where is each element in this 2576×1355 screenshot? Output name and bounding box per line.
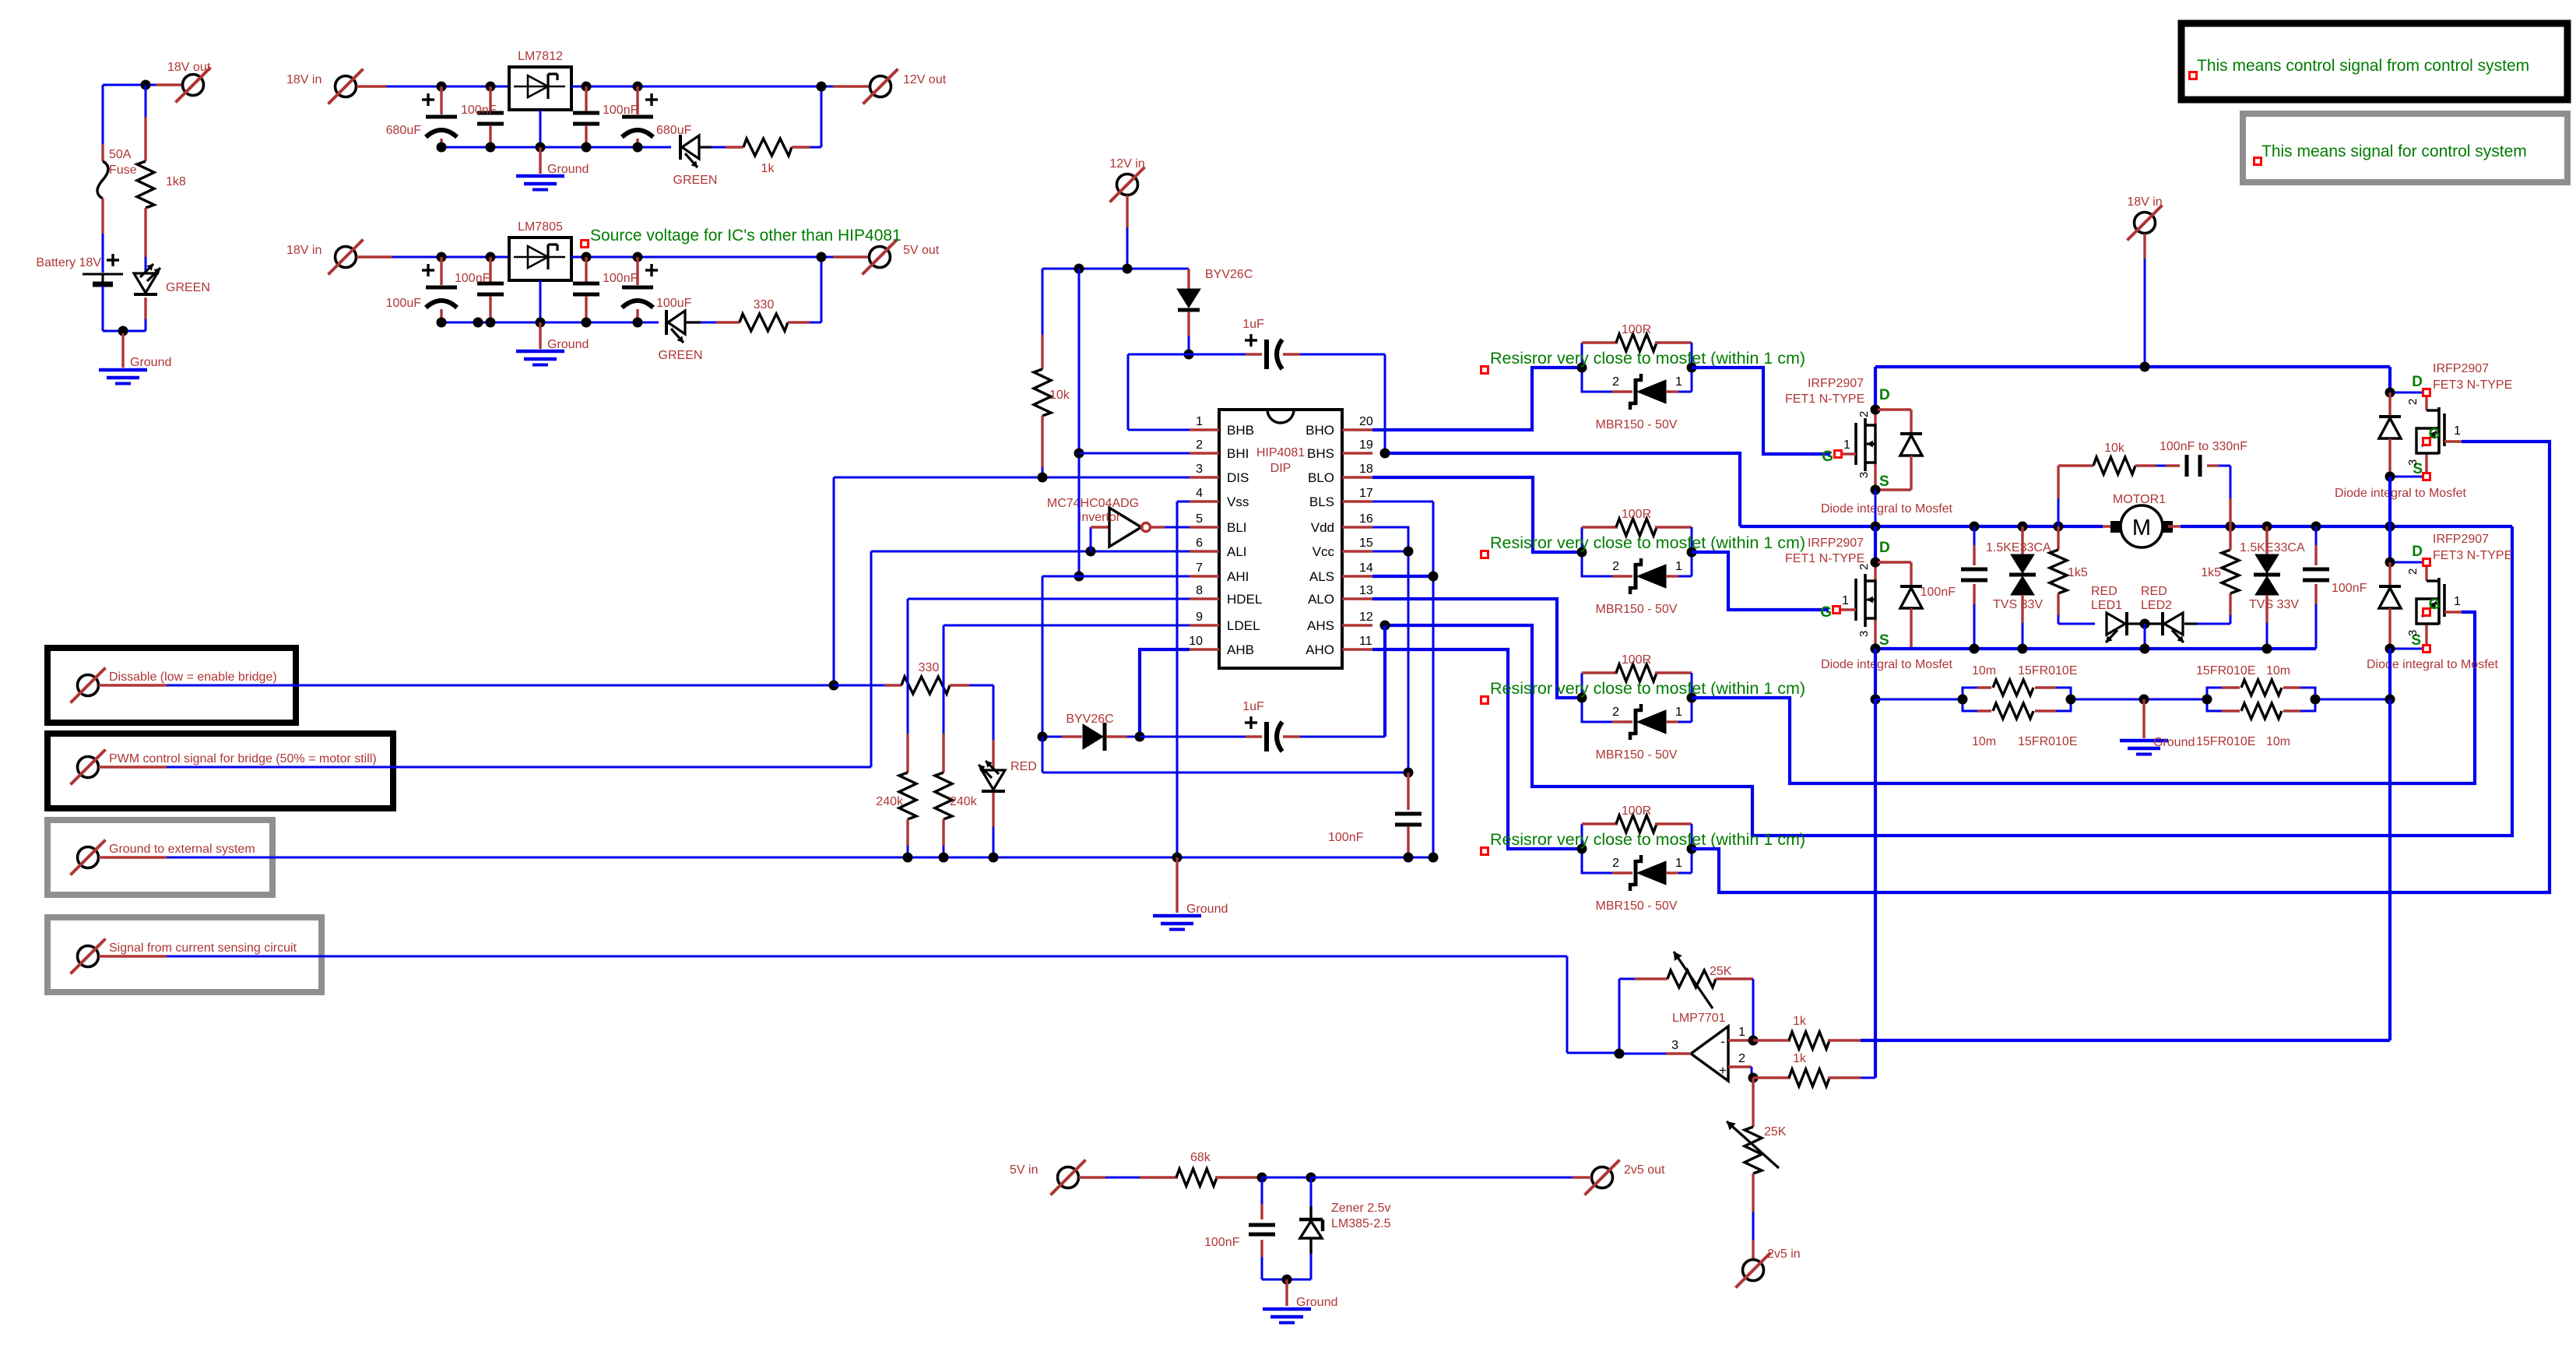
connector Signal [71, 939, 297, 974]
connector Dissable [71, 668, 277, 703]
wire motor rail A [1740, 525, 2512, 528]
node railA fet3 [2385, 522, 2395, 532]
svg-text:Diode integral to Mosfet: Diode integral to Mosfet [1821, 658, 1953, 671]
node 7805 out-cap3 [582, 252, 592, 262]
ground main [1153, 857, 1228, 930]
node gnd5 [633, 143, 643, 153]
op-amp U LMP7701 [1672, 1012, 1728, 1081]
pin 15 Vcc [1313, 537, 1373, 559]
node railA 1k5a [2054, 522, 2064, 532]
pin 4 Vss [1190, 487, 1249, 509]
connector 18V in (7812) [286, 69, 364, 104]
capacitor C 680uF out [622, 86, 692, 147]
node pin2 [1748, 1073, 1759, 1083]
svg-text:1k5: 1k5 [2201, 566, 2221, 579]
resistor R 1k5 left [2050, 526, 2095, 624]
node Vcc [1404, 547, 1414, 557]
transistor Q FET1 [1785, 377, 1890, 490]
diode body FET3l [2379, 562, 2401, 649]
pin 7 AHI [1190, 561, 1249, 584]
pin 11 AHO [1306, 635, 1372, 657]
node 100nF gnd [1404, 853, 1414, 863]
svg-text:1uF: 1uF [1242, 700, 1264, 713]
wire 12V bus [1042, 268, 1189, 270]
svg-text:IRFP2907: IRFP2907 [2433, 533, 2489, 546]
node AHS pin [1380, 621, 1390, 631]
node railA tvs1 [2018, 522, 2028, 532]
svg-text:8: 8 [1196, 584, 1203, 597]
wire battery bottom [103, 286, 146, 331]
pin 6 ALI [1190, 537, 1247, 559]
capacitor C 100nF hip [1328, 773, 1422, 857]
wire 7812 output [571, 86, 870, 88]
svg-text:3: 3 [2406, 459, 2420, 466]
wire boost to BHS [1384, 354, 1386, 453]
resistor R 330 (7805) [740, 298, 821, 331]
svg-text:4: 4 [1196, 487, 1203, 500]
node brail tvs2 [2262, 644, 2272, 654]
node brail fet2 [1871, 644, 1881, 654]
node 12v b [1123, 264, 1133, 274]
wire BLS net [1372, 502, 1433, 857]
svg-text:14: 14 [1359, 561, 1373, 575]
inverter U MC74HC04ADG [1047, 497, 1190, 551]
wire PWM up [870, 551, 873, 767]
svg-text:FET3 N-TYPE: FET3 N-TYPE [2433, 378, 2512, 392]
node brail tvs1 [2018, 644, 2028, 654]
diode TVS1 1.5KE33CA [1986, 526, 2051, 649]
node cluster3 right [1687, 693, 1697, 703]
svg-text:1: 1 [1738, 1026, 1745, 1039]
svg-text:BHB: BHB [1227, 423, 1254, 438]
svg-text:HIP4081: HIP4081 [1256, 446, 1305, 459]
node gnd2 [486, 143, 496, 153]
pin 2 BHI [1190, 438, 1249, 461]
wire 7805 input [357, 255, 509, 258]
ground 7812 [516, 147, 589, 190]
IC U HIP4081 [1219, 410, 1342, 668]
svg-text:G: G [1822, 449, 1833, 465]
wire 2v5 node [1262, 1177, 1311, 1179]
svg-text:MC74HC04ADG: MC74HC04ADG [1047, 497, 1139, 510]
svg-text:This means control signal from: This means control signal from control s… [2197, 57, 2529, 75]
node FET2 S [1871, 644, 1881, 654]
resistor R 1k inv [1753, 1015, 2390, 1049]
node railA cap [1970, 522, 1980, 532]
wire 7812 input [357, 85, 509, 87]
wire LDEL row [944, 625, 1190, 627]
wire BHI drop [1078, 269, 1081, 576]
transistor Q FET2 [1785, 537, 1890, 649]
svg-text:ALS: ALS [1309, 569, 1334, 584]
node BHS pin [1380, 449, 1390, 459]
wire led red drop [993, 685, 995, 770]
legend box signal for [2243, 114, 2567, 182]
label diode integral 3 [2335, 487, 2467, 500]
svg-text:2: 2 [1612, 706, 1619, 719]
svg-text:BHS: BHS [1307, 446, 1334, 461]
svg-text:AHB: AHB [1227, 642, 1254, 657]
node FET3l S [2385, 644, 2395, 654]
svg-text:3: 3 [1857, 631, 1871, 637]
node AHI [1074, 572, 1084, 582]
node ALI tap [1086, 547, 1096, 557]
wire ground rail long [99, 856, 1433, 858]
svg-text:GREEN: GREEN [166, 281, 210, 294]
wire 1k up [821, 86, 823, 147]
node 7812 in-cap2 [486, 82, 496, 92]
svg-text:9: 9 [1196, 611, 1203, 624]
svg-text:15FR010E: 15FR010E [2018, 735, 2078, 748]
regulator U LM7805 [509, 220, 571, 322]
svg-text:2: 2 [1857, 411, 1871, 417]
svg-text:330: 330 [919, 661, 940, 674]
pin 18 BLO [1308, 463, 1373, 485]
svg-text:16: 16 [1359, 512, 1373, 526]
node cluster4 left [1577, 844, 1587, 854]
node byv left [1038, 732, 1048, 742]
svg-text:10m: 10m [1972, 664, 1996, 677]
capacitor C 100uF out [622, 257, 692, 322]
wire 12V drop [1126, 195, 1128, 269]
svg-text:20: 20 [1359, 415, 1373, 428]
svg-text:3: 3 [1196, 463, 1203, 476]
connector 5V in [1010, 1160, 1086, 1195]
pin 10 AHB [1189, 635, 1254, 657]
svg-text:LM7805: LM7805 [518, 220, 563, 234]
svg-text:100R: 100R [1622, 508, 1651, 521]
svg-text:240k: 240k [950, 795, 978, 808]
wire AHI left drop [1042, 576, 1044, 737]
svg-text:Ground: Ground [1186, 903, 1228, 916]
svg-text:15: 15 [1359, 537, 1373, 550]
node g6 [633, 318, 643, 328]
node 7812 in-cap1 [437, 82, 447, 92]
svg-text:MBR150 - 50V: MBR150 - 50V [1596, 899, 1678, 913]
resistor R 1k [743, 139, 821, 175]
pin 3 DIS [1190, 463, 1249, 485]
svg-text:1: 1 [1842, 594, 1849, 607]
svg-text:330: 330 [754, 298, 775, 311]
svg-text:RED: RED [1010, 760, 1037, 773]
node gnd1 [437, 143, 447, 153]
diode D MBR150 cluster3 [1582, 698, 1692, 762]
wire BHB loop [1128, 354, 1190, 430]
svg-text:DIP: DIP [1270, 462, 1292, 475]
node 7805 in-cap2 [486, 252, 496, 262]
resistor R 10k [1034, 269, 1070, 477]
node FET2 D [1871, 558, 1881, 568]
capacitor C 100nF ref [1204, 1177, 1275, 1279]
connector 2v5 in [1736, 1248, 1801, 1288]
wire FET3S to sense [2388, 649, 2391, 699]
svg-text:BLO: BLO [1308, 470, 1334, 485]
svg-text:1: 1 [1675, 560, 1682, 573]
svg-text:100nF to 330nF: 100nF to 330nF [2160, 440, 2247, 453]
node sense l1 [1958, 695, 1968, 705]
wire AHI row [1042, 575, 1190, 578]
pin 1 BHB [1190, 415, 1254, 438]
node Vcc bus cap [1404, 768, 1414, 778]
svg-text:IRFP2907: IRFP2907 [2433, 362, 2489, 375]
wire DIS row [834, 477, 1190, 479]
wire 18V top rail [1875, 367, 2390, 410]
svg-text:BHO: BHO [1306, 423, 1334, 438]
wire 18V drop [2143, 234, 2145, 367]
node 12v a [1074, 264, 1084, 274]
svg-text:FET1 N-TYPE: FET1 N-TYPE [1785, 552, 1864, 565]
svg-text:100nF: 100nF [455, 272, 490, 285]
svg-text:1k5: 1k5 [2068, 566, 2088, 579]
node BHI [1074, 449, 1084, 459]
svg-text:1k8: 1k8 [166, 175, 186, 188]
svg-text:10k: 10k [1049, 389, 1070, 402]
wire 2v5 long [1311, 1177, 1573, 1179]
svg-text:3: 3 [1671, 1039, 1678, 1052]
svg-text:Diode integral to Mosfet: Diode integral to Mosfet [2335, 487, 2467, 500]
diode D BYV26C top [1177, 268, 1253, 354]
pin 16 Vdd [1311, 512, 1373, 535]
diode TVS2 1.5KE33CA [2240, 526, 2305, 649]
potentiometer R 25K offset [1727, 1078, 1787, 1259]
regulator U LM7812 [509, 50, 571, 147]
svg-text:1: 1 [2454, 595, 2461, 608]
svg-text:3: 3 [1857, 472, 1871, 478]
resistor R 100R cluster4 [1582, 804, 1692, 849]
svg-text:GREEN: GREEN [659, 349, 703, 362]
svg-text:IRFP2907: IRFP2907 [1808, 377, 1864, 390]
svg-text:LMP7701: LMP7701 [1672, 1012, 1726, 1025]
svg-text:2: 2 [2406, 399, 2420, 405]
wire opamp pin2 [1728, 1052, 1752, 1078]
svg-text:Zener 2.5v: Zener 2.5v [1331, 1202, 1390, 1215]
svg-text:1k: 1k [761, 162, 775, 175]
svg-text:Battery 18V: Battery 18V [36, 256, 101, 269]
svg-text:Dissable (low = enable bridge): Dissable (low = enable bridge) [109, 670, 277, 684]
ground ref [1263, 1279, 1337, 1323]
wire gate FET3 (A-high) [1692, 442, 2550, 892]
LED RED LED2 [2138, 585, 2230, 642]
svg-text:1k: 1k [1793, 1052, 1807, 1065]
svg-text:LM7812: LM7812 [518, 50, 563, 63]
node ref gnd [1282, 1275, 1292, 1285]
connector 12V out [863, 69, 947, 104]
svg-text:1: 1 [1843, 438, 1850, 452]
svg-text:Diode integral to Mosfet: Diode integral to Mosfet [2367, 658, 2499, 671]
svg-text:18V in: 18V in [286, 244, 322, 257]
wire led mid drop [2144, 624, 2146, 649]
node cluster4 right [1687, 844, 1697, 854]
node railA motorR [2226, 522, 2236, 532]
svg-text:Resisror very close to mosfet: Resisror very close to mosfet (within 1 … [1490, 533, 1805, 552]
svg-text:10m: 10m [2266, 735, 2290, 748]
capacitor C 100uF in [386, 257, 457, 322]
battery B1 18V [36, 254, 123, 284]
svg-text:ALI: ALI [1227, 544, 1247, 559]
svg-text:1: 1 [1675, 857, 1682, 870]
svg-text:1: 1 [1675, 375, 1682, 389]
resistor R 10m left top [1963, 664, 2078, 699]
wire gate FET1 [1692, 368, 1830, 454]
svg-text:50A: 50A [109, 148, 132, 161]
node 12V out [817, 82, 827, 92]
diode body FET1 [1878, 410, 1922, 490]
node 7812 out-cap3 [582, 82, 592, 92]
node opamp out [1615, 1049, 1625, 1059]
wire BHI row [1079, 452, 1190, 455]
wire AHO net [1372, 649, 1582, 849]
wire FET3h S drop [2388, 477, 2391, 526]
box Ground external [47, 820, 272, 895]
svg-text:3: 3 [2406, 630, 2420, 636]
svg-text:Signal from current sensing ci: Signal from current sensing circuit [109, 941, 297, 955]
resistor R 100R cluster3 [1582, 653, 1692, 698]
wire BLO net [1372, 477, 1582, 552]
transistor Q FET3 low [2390, 533, 2512, 653]
svg-text:100nF: 100nF [2332, 582, 2367, 595]
svg-text:1: 1 [2454, 424, 2461, 438]
svg-text:100nF: 100nF [1328, 831, 1364, 844]
connector PWM [71, 750, 377, 785]
node cluster2 left [1577, 547, 1587, 558]
resistor R 1k8 [137, 85, 186, 273]
svg-text:2: 2 [1738, 1052, 1745, 1065]
svg-text:680uF: 680uF [386, 124, 422, 137]
diode D MBR150 cluster1 [1582, 368, 1692, 431]
wire Vcc bus [1042, 737, 1408, 773]
wire FET2S to sense [1874, 649, 1877, 699]
svg-text:15FR010E: 15FR010E [2196, 735, 2256, 748]
node Vss gnd [1172, 853, 1183, 863]
svg-text:1.5KE33CA: 1.5KE33CA [2240, 541, 2305, 554]
svg-text:BHI: BHI [1227, 446, 1249, 461]
LED GREEN 7805 [659, 310, 740, 362]
wire ALS net [1372, 575, 1433, 578]
svg-text:Fuse: Fuse [109, 164, 137, 177]
resistor R 10m right top [2196, 664, 2315, 699]
svg-text:FET1 N-TYPE: FET1 N-TYPE [1785, 392, 1864, 406]
svg-text:100nF: 100nF [603, 104, 638, 117]
pin 8 HDEL [1190, 584, 1262, 607]
node 7805 in-cap1 [437, 252, 447, 262]
svg-text:Resisror very close to mosfet: Resisror very close to mosfet (within 1 … [1490, 679, 1805, 698]
wire ALO net [1372, 599, 1582, 698]
svg-text:DIS: DIS [1227, 470, 1249, 485]
svg-text:D: D [1879, 540, 1890, 556]
wire 330 up [821, 257, 823, 322]
svg-text:13: 13 [1359, 584, 1373, 597]
wire gate FET4 (A-low) [1692, 612, 2475, 783]
resistor R 1k noninv [1753, 1052, 1875, 1086]
annotation resistor close 4 [1481, 830, 1806, 855]
box Signal sensing [47, 917, 322, 992]
ground 7805 [516, 322, 589, 365]
node boost b [1184, 350, 1194, 360]
svg-text:100nF: 100nF [1921, 586, 1956, 599]
node brail mid [2140, 644, 2150, 654]
pin 17 BLS [1309, 487, 1373, 509]
node FET1 D [1871, 405, 1881, 415]
svg-text:240k: 240k [876, 795, 904, 808]
svg-text:G: G [1820, 604, 1832, 621]
wire sense row [1875, 699, 2390, 701]
node FET1 S [1871, 485, 1881, 495]
svg-text:7: 7 [1196, 561, 1203, 575]
svg-text:19: 19 [1359, 438, 1373, 452]
svg-text:Vss: Vss [1227, 494, 1249, 509]
svg-text:S: S [1879, 632, 1889, 649]
wire battery left drop [102, 85, 104, 144]
svg-text:G: G [2429, 426, 2441, 442]
node g1 [437, 318, 447, 328]
wire BHO net [1372, 368, 1582, 430]
diode D MBR150 cluster4 [1582, 849, 1692, 913]
pin 5 BLI [1190, 512, 1247, 535]
svg-text:68k: 68k [1190, 1151, 1211, 1164]
svg-text:D: D [2412, 544, 2423, 560]
svg-text:MBR150 - 50V: MBR150 - 50V [1596, 603, 1678, 616]
node 10k-DIS [1038, 473, 1048, 483]
wire FET2 D [1874, 526, 1877, 562]
svg-text:IRFP2907: IRFP2907 [1808, 537, 1864, 550]
svg-text:15FR010E: 15FR010E [2018, 664, 2078, 677]
svg-text:100uF: 100uF [656, 297, 692, 310]
svg-text:25K: 25K [1764, 1125, 1787, 1139]
node 18V rail [2140, 362, 2150, 372]
wire senseB down [2388, 699, 2391, 1040]
svg-text:LED1: LED1 [2091, 599, 2122, 612]
svg-text:6: 6 [1196, 537, 1203, 550]
svg-text:1k: 1k [1793, 1015, 1807, 1028]
svg-text:2: 2 [1196, 438, 1203, 452]
capacitor C 680uF in [386, 86, 457, 147]
diode D Zener LM385-2.5 [1299, 1177, 1391, 1279]
resistor R 1k5 right [2201, 526, 2239, 624]
capacitor C 100nF out2 [573, 257, 638, 322]
node FET3h D [2385, 388, 2395, 398]
wire bottom rail [1875, 647, 2316, 650]
wire sense to 1k [1874, 699, 1877, 1078]
svg-text:LDEL: LDEL [1227, 618, 1260, 633]
svg-text:2: 2 [1612, 857, 1619, 870]
LED GREEN battery [134, 264, 210, 331]
node rail end [1429, 853, 1439, 863]
svg-text:BYV26C: BYV26C [1205, 268, 1253, 281]
svg-text:18: 18 [1359, 463, 1373, 476]
svg-text:5V out: 5V out [903, 244, 940, 257]
capacitor C 100nF-330nF [2160, 440, 2247, 526]
svg-text:M: M [2132, 516, 2151, 540]
capacitor C 1uF top [1189, 318, 1385, 369]
svg-text:MBR150 - 50V: MBR150 - 50V [1596, 418, 1678, 431]
wire Vcc jog [1372, 551, 1408, 773]
svg-text:MBR150 - 50V: MBR150 - 50V [1596, 748, 1678, 762]
connector 18V in right [2127, 195, 2162, 241]
annotation resistor close 1 [1481, 349, 1806, 374]
pin 9 LDEL [1190, 611, 1260, 633]
svg-text:18V in: 18V in [2127, 195, 2162, 209]
svg-text:1.5KE33CA: 1.5KE33CA [1986, 541, 2051, 554]
node 5V out [817, 252, 827, 262]
svg-text:680uF: 680uF [656, 124, 692, 137]
node cluster3 left [1577, 693, 1587, 703]
node gnd4 [582, 143, 592, 153]
node FET3h S [2385, 472, 2395, 482]
svg-text:100R: 100R [1622, 804, 1651, 818]
svg-text:Ground: Ground [2153, 736, 2195, 749]
wire dissable up [833, 477, 835, 685]
svg-text:10m: 10m [1972, 735, 1996, 748]
